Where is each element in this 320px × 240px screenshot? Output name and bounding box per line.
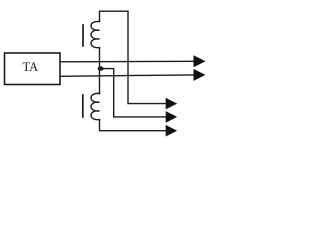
wire tap-branch <box>100 69 167 117</box>
core bar B2 <box>82 95 84 117</box>
wire bottom <box>100 120 167 131</box>
wire W2 <box>60 75 194 76</box>
arrowhead A1 <box>194 55 206 67</box>
core bar B1 <box>82 25 84 46</box>
wire link <box>99 48 101 94</box>
junction dot <box>98 66 104 70</box>
arrowhead A4 <box>166 111 178 123</box>
arrowhead A5 <box>166 125 178 137</box>
wire W1 <box>60 60 194 63</box>
inductor L1 <box>91 21 99 47</box>
svg-text:TA: TA <box>23 60 39 74</box>
box TA <box>5 53 61 85</box>
wire top-loop <box>100 11 167 103</box>
arrowhead A2 <box>194 69 206 81</box>
inductor L2 <box>91 93 99 119</box>
arrowhead A3 <box>166 98 178 110</box>
